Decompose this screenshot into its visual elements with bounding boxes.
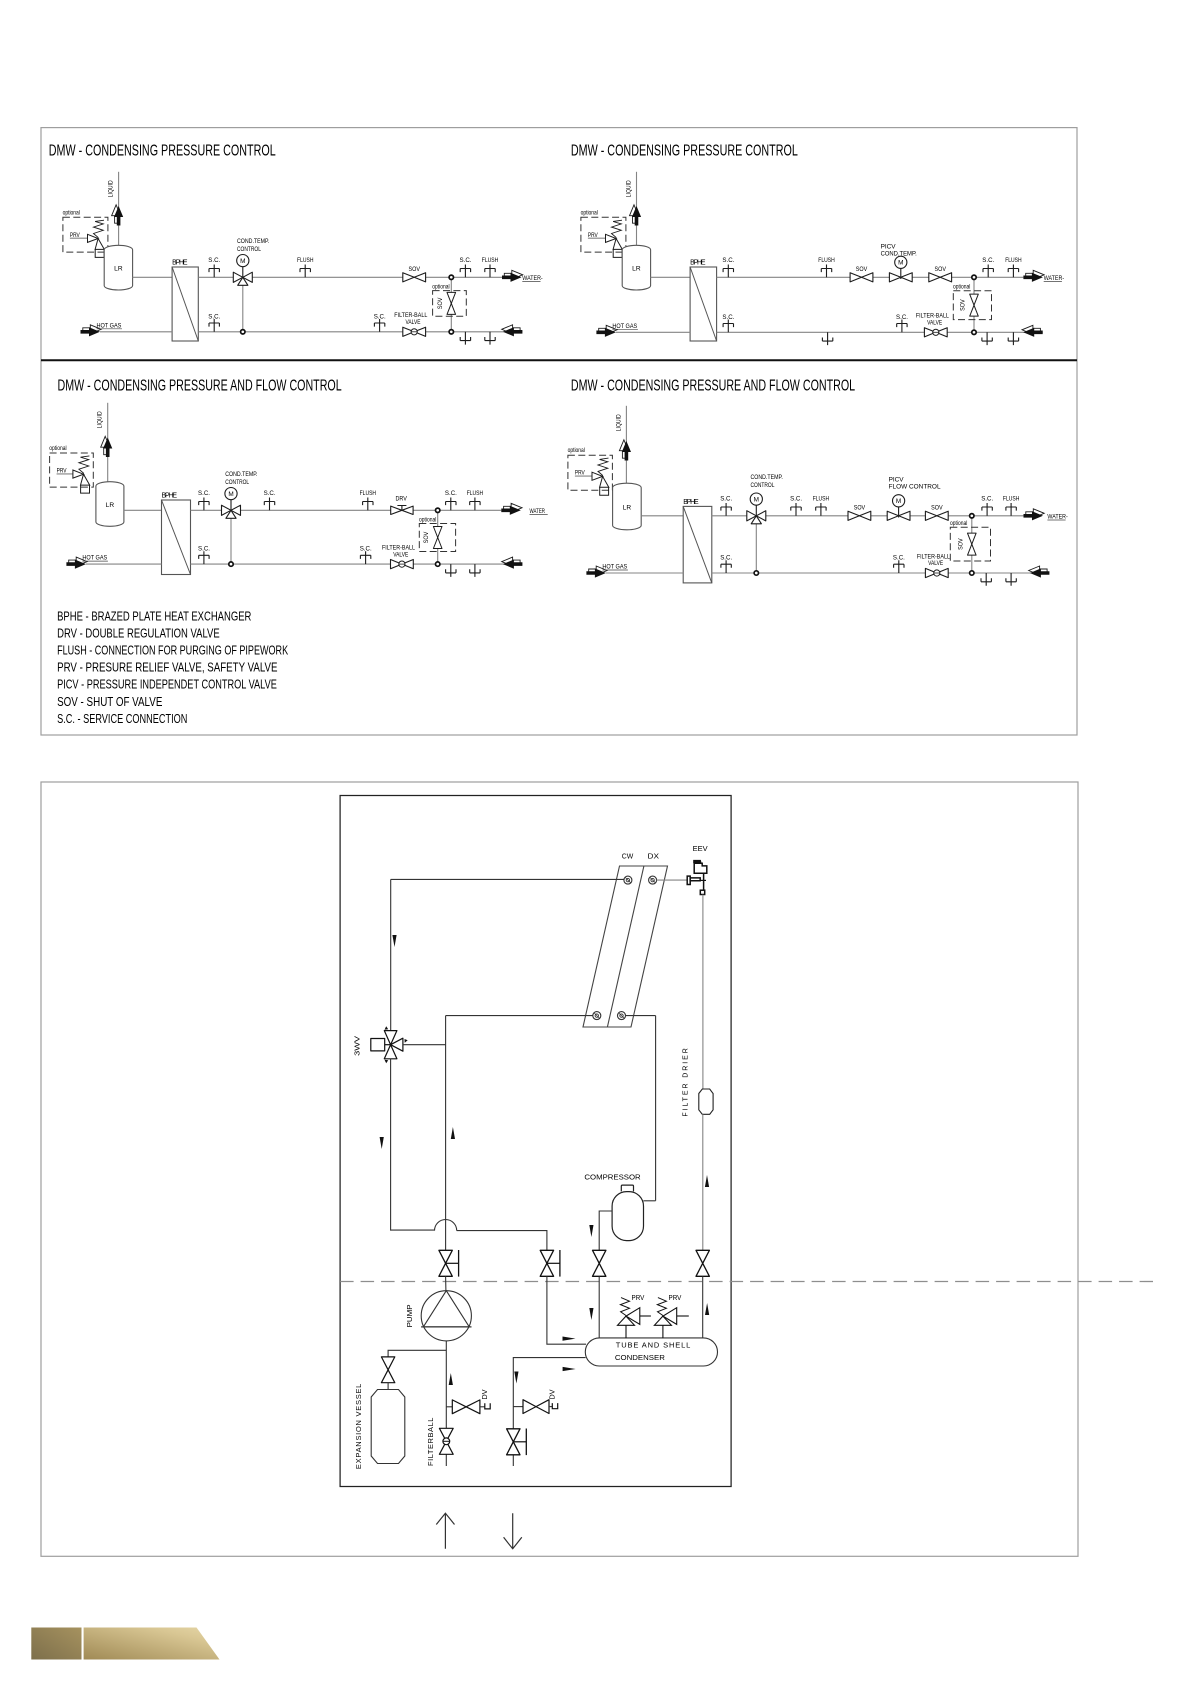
safety valve PRV 1 xyxy=(618,1308,640,1326)
svg-text:LR: LR xyxy=(623,504,632,511)
svg-text:S.C.: S.C. xyxy=(893,554,905,561)
svg-text:SOV: SOV xyxy=(409,267,420,274)
water out arrow xyxy=(504,503,522,512)
wire bottom pipe right xyxy=(198,331,522,333)
bypass riser xyxy=(971,516,973,573)
svg-text:FILTER-BALL: FILTER-BALL xyxy=(916,313,950,320)
svg-text:CONTROL: CONTROL xyxy=(751,482,775,489)
svg-text:VALVE: VALVE xyxy=(393,552,408,559)
wire compressor suction xyxy=(599,1211,612,1250)
wire vessel to BPHE xyxy=(651,276,691,278)
svg-text:BPHE: BPHE xyxy=(162,492,178,499)
flow arrow right xyxy=(563,1367,576,1371)
three-way valve 3WV xyxy=(371,1031,403,1059)
svg-text:S.C.: S.C. xyxy=(208,257,220,264)
legend arrow down xyxy=(504,1513,522,1549)
flow arrow right xyxy=(563,1337,576,1341)
water out arrow xyxy=(1026,509,1044,518)
inner system boundary box xyxy=(340,796,731,1487)
node top xyxy=(449,275,453,279)
svg-text:CONTROL: CONTROL xyxy=(237,246,261,253)
svg-text:FLUSH: FLUSH xyxy=(813,496,829,503)
svg-text:DV: DV xyxy=(549,1389,557,1399)
filter-ball valve xyxy=(924,328,947,337)
wire condenser water in xyxy=(547,1276,586,1344)
svg-text:PICV: PICV xyxy=(889,476,905,483)
svg-text:S.C.: S.C. xyxy=(790,495,802,502)
PRV pipe xyxy=(57,473,73,475)
drain cap xyxy=(485,1403,490,1409)
wire bottom pipe left xyxy=(606,572,683,574)
optional box PRV xyxy=(50,453,94,487)
svg-text:LIQUID: LIQUID xyxy=(616,414,623,431)
svg-text:optional: optional xyxy=(432,284,449,291)
filter-ball valve xyxy=(403,327,426,336)
wire top pipe xyxy=(712,515,1024,517)
expansion valve EEV xyxy=(687,863,707,894)
wire vessel to BPHE xyxy=(133,276,173,278)
svg-text:S.C.: S.C. xyxy=(460,257,472,264)
bypass riser xyxy=(450,277,452,332)
wire left drop xyxy=(390,879,392,1030)
svg-text:S.C.: S.C. xyxy=(208,313,220,320)
svg-text:PRV: PRV xyxy=(669,1295,682,1302)
hot gas arrow xyxy=(589,566,607,575)
service connection S.C. xyxy=(199,498,209,511)
svg-text:SOV: SOV xyxy=(958,538,965,549)
footer logo band xyxy=(84,1628,220,1660)
wire DX to EEV xyxy=(657,879,688,881)
wire expansion vessel branch xyxy=(388,1350,446,1357)
service connection S.C. xyxy=(721,503,731,516)
wire vessel to BPHE xyxy=(641,515,683,517)
drain stub down xyxy=(470,564,480,577)
svg-text:PUMP: PUMP xyxy=(405,1304,414,1327)
receiver vessel LR xyxy=(104,245,132,290)
riser from 3-way valve xyxy=(755,524,757,573)
wire liquid valve to condenser xyxy=(702,1276,704,1338)
svg-text:S.C.: S.C. xyxy=(720,554,732,561)
svg-text:DRV: DRV xyxy=(396,496,407,503)
pressure relief valve PRV xyxy=(73,470,90,485)
wire valve to vessel xyxy=(387,1383,389,1390)
tube and shell condenser xyxy=(585,1338,717,1366)
svg-text:DV: DV xyxy=(481,1389,489,1399)
DV drain branch 2 xyxy=(513,1406,523,1408)
node bottom xyxy=(436,562,440,566)
service connection S.C. xyxy=(360,551,370,564)
svg-text:EEV: EEV xyxy=(693,844,708,853)
optional box PRV xyxy=(63,217,108,252)
wire condenser water out xyxy=(513,1358,585,1466)
svg-text:LIQUID: LIQUID xyxy=(97,411,104,428)
svg-text:CONTROL: CONTROL xyxy=(225,479,249,486)
pressure relief valve PRV xyxy=(592,472,609,487)
svg-text:PICV - PRESSURE INDEPENDET CON: PICV - PRESSURE INDEPENDET CONTROL VALVE xyxy=(57,678,277,692)
liquid arrow xyxy=(619,440,628,458)
port xyxy=(624,876,632,884)
pressure relief valve PRV xyxy=(606,234,623,249)
svg-text:LR: LR xyxy=(114,265,123,272)
liquid arrow xyxy=(112,205,121,223)
svg-text:SOV: SOV xyxy=(854,505,865,512)
svg-text:FLUSH: FLUSH xyxy=(1003,496,1019,503)
wire HX bottom left xyxy=(446,1015,593,1017)
drain valve DV xyxy=(452,1400,480,1414)
hot gas arrow xyxy=(599,325,617,334)
wire 3WV down xyxy=(390,1059,392,1231)
flush connection FLUSH xyxy=(1008,265,1018,278)
svg-text:M: M xyxy=(240,258,245,265)
legend arrow up xyxy=(436,1513,454,1549)
service connection S.C. xyxy=(199,551,209,564)
svg-text:SOV: SOV xyxy=(856,267,867,274)
receiver vessel LR xyxy=(622,245,650,290)
svg-text:FILTERBALL: FILTERBALL xyxy=(426,1417,435,1466)
wire pump down xyxy=(445,1341,447,1466)
heat exchanger divider xyxy=(607,866,644,1027)
bypass shut-off valve SOV xyxy=(968,533,977,555)
svg-text:LR: LR xyxy=(106,502,115,509)
svg-text:DRV - DOUBLE REGULATION VALVE: DRV - DOUBLE REGULATION VALVE xyxy=(57,627,220,641)
svg-text:COND.TEMP.: COND.TEMP. xyxy=(225,472,258,479)
service connection S.C. xyxy=(209,319,219,332)
bypass riser xyxy=(973,277,975,332)
bypass shut-off valve SOV xyxy=(433,527,442,549)
svg-text:EXPANSION VESSEL: EXPANSION VESSEL xyxy=(354,1383,363,1469)
service connection S.C. xyxy=(723,320,733,333)
heat exchanger BPHE xyxy=(172,267,198,341)
pump xyxy=(421,1291,471,1341)
wire HX bottom right to discharge riser xyxy=(626,1015,656,1017)
wire to cap xyxy=(480,1406,485,1408)
separator line xyxy=(41,359,1077,361)
liquid pipe xyxy=(625,406,627,486)
motorized control valve M xyxy=(889,273,912,282)
water out arrow xyxy=(1026,270,1044,279)
svg-text:PRV - PRESURE RELIEF VALVE, SA: PRV - PRESURE RELIEF VALVE, SAFETY VALVE xyxy=(57,661,278,675)
svg-text:optional: optional xyxy=(568,448,585,455)
bypass shut-off valve SOV xyxy=(970,294,979,316)
compressor xyxy=(621,1185,633,1191)
shut-off valve SOV xyxy=(929,273,952,282)
wire valve to pump xyxy=(445,1276,447,1290)
expansion vessel xyxy=(371,1390,405,1464)
return arrow xyxy=(502,557,520,566)
hot gas arrow xyxy=(69,557,87,566)
drain cap xyxy=(552,1403,557,1409)
svg-text:SOV - SHUT OF VALVE: SOV - SHUT OF VALVE xyxy=(57,694,162,709)
flow arrow up xyxy=(705,1303,709,1315)
drain stub down xyxy=(485,332,495,345)
svg-text:optional: optional xyxy=(581,210,598,217)
shut-off valve SOV xyxy=(850,273,873,282)
svg-text:optional: optional xyxy=(63,210,80,217)
DV drain branch 1 xyxy=(446,1406,452,1408)
svg-text:DMW - CONDENSING PRESSURE AND: DMW - CONDENSING PRESSURE AND FLOW CONTR… xyxy=(58,376,343,394)
svg-text:CONDENSER: CONDENSER xyxy=(615,1353,665,1362)
svg-text:FLUSH: FLUSH xyxy=(1005,258,1021,265)
receiver vessel LR xyxy=(613,483,642,530)
svg-text:S.C.: S.C. xyxy=(264,490,276,497)
hot gas arrow xyxy=(83,325,101,334)
service connection S.C. xyxy=(983,265,993,278)
svg-text:DX: DX xyxy=(648,852,659,860)
riser from 3-way valve xyxy=(230,518,232,564)
wire bottom pipe left xyxy=(86,563,162,565)
safety valve PRV 2 xyxy=(654,1308,676,1326)
flush connection FLUSH xyxy=(1006,503,1016,516)
optional box SOV xyxy=(953,291,991,320)
svg-text:DMW - CONDENSING PRESSURE CONT: DMW - CONDENSING PRESSURE CONTROL xyxy=(571,141,798,159)
flow arrow down xyxy=(392,935,396,947)
wire compressor discharge xyxy=(644,1200,656,1202)
svg-text:M: M xyxy=(898,260,903,267)
expansion vessel valve xyxy=(381,1357,394,1383)
flush connection FLUSH xyxy=(300,265,310,278)
wire bottom pipe left xyxy=(616,331,690,333)
wire 3WV right branch xyxy=(403,1044,446,1046)
node bottom xyxy=(970,571,974,575)
isolation valve liquid line xyxy=(696,1250,709,1276)
drain stub down xyxy=(981,573,991,586)
service connection S.C. xyxy=(209,265,219,278)
wire 3WV elbow to valve xyxy=(391,1230,547,1250)
svg-text:COND.TEMP.: COND.TEMP. xyxy=(237,239,270,246)
svg-text:VALVE: VALVE xyxy=(406,319,421,326)
pipe bridge xyxy=(435,1220,457,1231)
motorized 3-way valve M xyxy=(747,511,766,524)
service connection S.C. xyxy=(894,560,904,573)
optional box SOV xyxy=(950,527,990,561)
svg-text:BPHE: BPHE xyxy=(683,499,699,506)
shut-off valve SOV xyxy=(925,511,948,520)
svg-text:S.C.: S.C. xyxy=(198,546,210,553)
svg-text:3WV: 3WV xyxy=(352,1035,361,1055)
svg-text:S.C.: S.C. xyxy=(982,257,994,264)
shut-off valve SOV xyxy=(848,511,871,520)
wire riser to pump valve xyxy=(445,1016,447,1251)
node top xyxy=(436,508,440,512)
svg-text:SOV: SOV xyxy=(931,505,942,512)
svg-text:LR: LR xyxy=(632,265,641,272)
svg-text:SOV: SOV xyxy=(437,298,444,309)
optional box SOV xyxy=(419,524,455,552)
shut-off valve SOV xyxy=(403,273,426,282)
svg-text:FLUSH: FLUSH xyxy=(818,258,834,265)
svg-text:FLUSH - CONNECTION FOR PURGING: FLUSH - CONNECTION FOR PURGING OF PIPEWO… xyxy=(57,644,288,658)
flush connection FLUSH xyxy=(821,265,831,278)
svg-text:M: M xyxy=(896,498,901,505)
motorized 3-way valve M xyxy=(222,505,241,518)
flush connection FLUSH xyxy=(470,498,480,511)
svg-text:S.C.: S.C. xyxy=(445,490,457,497)
wire to cap xyxy=(549,1406,552,1408)
liquid pipe xyxy=(118,172,120,249)
isolation valve suction xyxy=(593,1250,606,1276)
plate heat exchanger xyxy=(583,866,668,1027)
port xyxy=(618,1012,626,1020)
drain stub down xyxy=(446,564,456,577)
svg-text:COMPRESSOR: COMPRESSOR xyxy=(584,1172,641,1181)
node top xyxy=(970,514,974,518)
svg-text:SOV: SOV xyxy=(424,532,431,543)
frame box 1 xyxy=(41,128,1077,735)
wire top pipe xyxy=(191,509,502,511)
svg-text:FLOW CONTROL: FLOW CONTROL xyxy=(889,484,941,491)
svg-text:TUBE AND SHELL: TUBE AND SHELL xyxy=(616,1340,691,1349)
service connection S.C. xyxy=(374,319,384,332)
flow arrow down xyxy=(514,1372,518,1384)
wire suction valve to condenser xyxy=(598,1276,600,1338)
liquid pipe xyxy=(107,403,109,485)
service connection S.C. xyxy=(897,320,907,333)
filter drier xyxy=(699,1089,713,1114)
node top xyxy=(972,275,976,279)
wire EEV down to filter drier xyxy=(702,895,704,1090)
heat exchanger BPHE xyxy=(690,267,717,341)
svg-text:FLUSH: FLUSH xyxy=(360,491,376,498)
node bottom xyxy=(972,330,976,334)
svg-text:FILTER DRIER: FILTER DRIER xyxy=(683,1046,690,1116)
return arrow xyxy=(1022,325,1040,334)
footer logo dark block xyxy=(31,1628,81,1660)
svg-text:M: M xyxy=(228,491,233,498)
svg-text:FILTER-BALL: FILTER-BALL xyxy=(382,545,416,552)
liquid pipe xyxy=(636,172,638,249)
flow arrow up xyxy=(449,1373,453,1385)
flow arrow down xyxy=(380,1137,384,1149)
junction node xyxy=(241,330,245,334)
flush connection FLUSH xyxy=(363,498,373,511)
riser from 3-way valve xyxy=(242,285,244,332)
return arrow xyxy=(1029,566,1047,575)
wire top pipe xyxy=(198,276,502,278)
pressure relief valve PRV xyxy=(88,234,105,249)
wire bottom pipe right xyxy=(717,331,1043,333)
wire top loop xyxy=(391,878,624,880)
svg-text:SOV: SOV xyxy=(960,299,967,310)
drain valve DV xyxy=(523,1400,549,1414)
svg-text:VALVE: VALVE xyxy=(927,320,942,327)
heat exchanger BPHE xyxy=(162,500,191,575)
service connection S.C. xyxy=(264,498,274,511)
svg-text:COND.TEMP.: COND.TEMP. xyxy=(751,475,784,482)
boundary dashed line xyxy=(340,1281,1153,1283)
isolation valve condenser inlet water xyxy=(540,1250,553,1276)
liquid arrow xyxy=(101,436,110,454)
drain stub down xyxy=(1008,332,1018,345)
filterball valve xyxy=(439,1428,453,1454)
svg-text:BPHE - BRAZED PLATE HEAT EXCHA: BPHE - BRAZED PLATE HEAT EXCHANGER xyxy=(57,610,251,624)
return arrow xyxy=(502,325,520,334)
isolation valve pump xyxy=(439,1250,452,1276)
svg-text:M: M xyxy=(754,497,759,504)
svg-text:S.C.: S.C. xyxy=(374,313,386,320)
service connection S.C. xyxy=(723,265,733,278)
svg-text:LIQUID: LIQUID xyxy=(626,180,633,197)
flow arrow down xyxy=(589,1225,593,1237)
svg-text:FLUSH: FLUSH xyxy=(467,491,483,498)
svg-text:FILTER-BALL: FILTER-BALL xyxy=(394,313,428,320)
svg-text:S.C.: S.C. xyxy=(720,495,732,502)
svg-text:LIQUID: LIQUID xyxy=(108,180,115,197)
svg-text:S.C.: S.C. xyxy=(722,314,734,321)
heat exchanger BPHE xyxy=(683,506,712,583)
svg-text:FLUSH: FLUSH xyxy=(482,258,498,265)
PRV pipe xyxy=(70,237,88,239)
optional box SOV xyxy=(433,291,467,317)
service connection S.C. xyxy=(721,560,731,573)
receiver vessel LR xyxy=(96,482,124,527)
svg-text:optional: optional xyxy=(953,284,970,291)
wire filter drier down xyxy=(702,1114,704,1250)
node bottom xyxy=(449,330,453,334)
service connection S.C. xyxy=(460,265,470,278)
flush stub down xyxy=(822,332,832,345)
flow arrow up xyxy=(705,1175,709,1187)
svg-text:PICV: PICV xyxy=(881,243,897,250)
svg-text:optional: optional xyxy=(49,445,66,452)
PRV pipe xyxy=(588,237,606,239)
flush connection FLUSH xyxy=(816,503,826,516)
wire bottom pipe right xyxy=(191,563,523,565)
motorized 3-way valve M xyxy=(233,272,252,285)
svg-text:S.C.: S.C. xyxy=(981,495,993,502)
wire top pipe xyxy=(717,276,1024,278)
service connection S.C. xyxy=(446,498,456,511)
svg-text:BPHE: BPHE xyxy=(690,259,706,266)
svg-text:optional: optional xyxy=(419,517,436,524)
svg-text:S.C. - SERVICE CONNECTION: S.C. - SERVICE CONNECTION xyxy=(57,712,187,726)
bypass shut-off valve SOV xyxy=(447,292,456,314)
motorized control valve M xyxy=(887,511,910,520)
wire bottom pipe right xyxy=(712,572,1050,574)
PRV pipe xyxy=(575,475,592,477)
svg-text:FLUSH: FLUSH xyxy=(297,258,313,265)
wire bottom pipe left xyxy=(100,331,172,333)
drain stub down xyxy=(982,332,992,345)
svg-text:DMW - CONDENSING PRESSURE CONT: DMW - CONDENSING PRESSURE CONTROL xyxy=(49,141,276,159)
drain stub down xyxy=(460,332,470,345)
svg-text:S.C.: S.C. xyxy=(360,546,372,553)
junction node xyxy=(229,562,233,566)
bypass riser xyxy=(437,510,439,564)
service connection S.C. xyxy=(982,503,992,516)
flow arrow up xyxy=(451,1127,455,1139)
optional box PRV xyxy=(568,455,613,490)
junction node xyxy=(754,571,758,575)
filter-ball valve xyxy=(925,568,948,577)
svg-text:CW: CW xyxy=(622,853,634,860)
drain stub down xyxy=(1006,573,1016,586)
water out arrow xyxy=(504,270,522,279)
svg-text:DMW - CONDENSING PRESSURE AND: DMW - CONDENSING PRESSURE AND FLOW CONTR… xyxy=(571,376,856,394)
flow arrow down xyxy=(589,1308,593,1320)
svg-text:PRV: PRV xyxy=(632,1295,645,1302)
frame box 2 xyxy=(41,782,1078,1556)
svg-text:S.C.: S.C. xyxy=(722,257,734,264)
isolation valve water out xyxy=(507,1429,520,1455)
optional box PRV xyxy=(581,217,626,252)
svg-text:S.C.: S.C. xyxy=(198,490,210,497)
service connection S.C. xyxy=(791,503,801,516)
svg-text:FILTER-BALL: FILTER-BALL xyxy=(917,554,951,561)
flush connection FLUSH xyxy=(485,265,495,278)
svg-text:VALVE: VALVE xyxy=(928,561,943,568)
port xyxy=(649,876,657,884)
liquid arrow xyxy=(630,205,639,223)
